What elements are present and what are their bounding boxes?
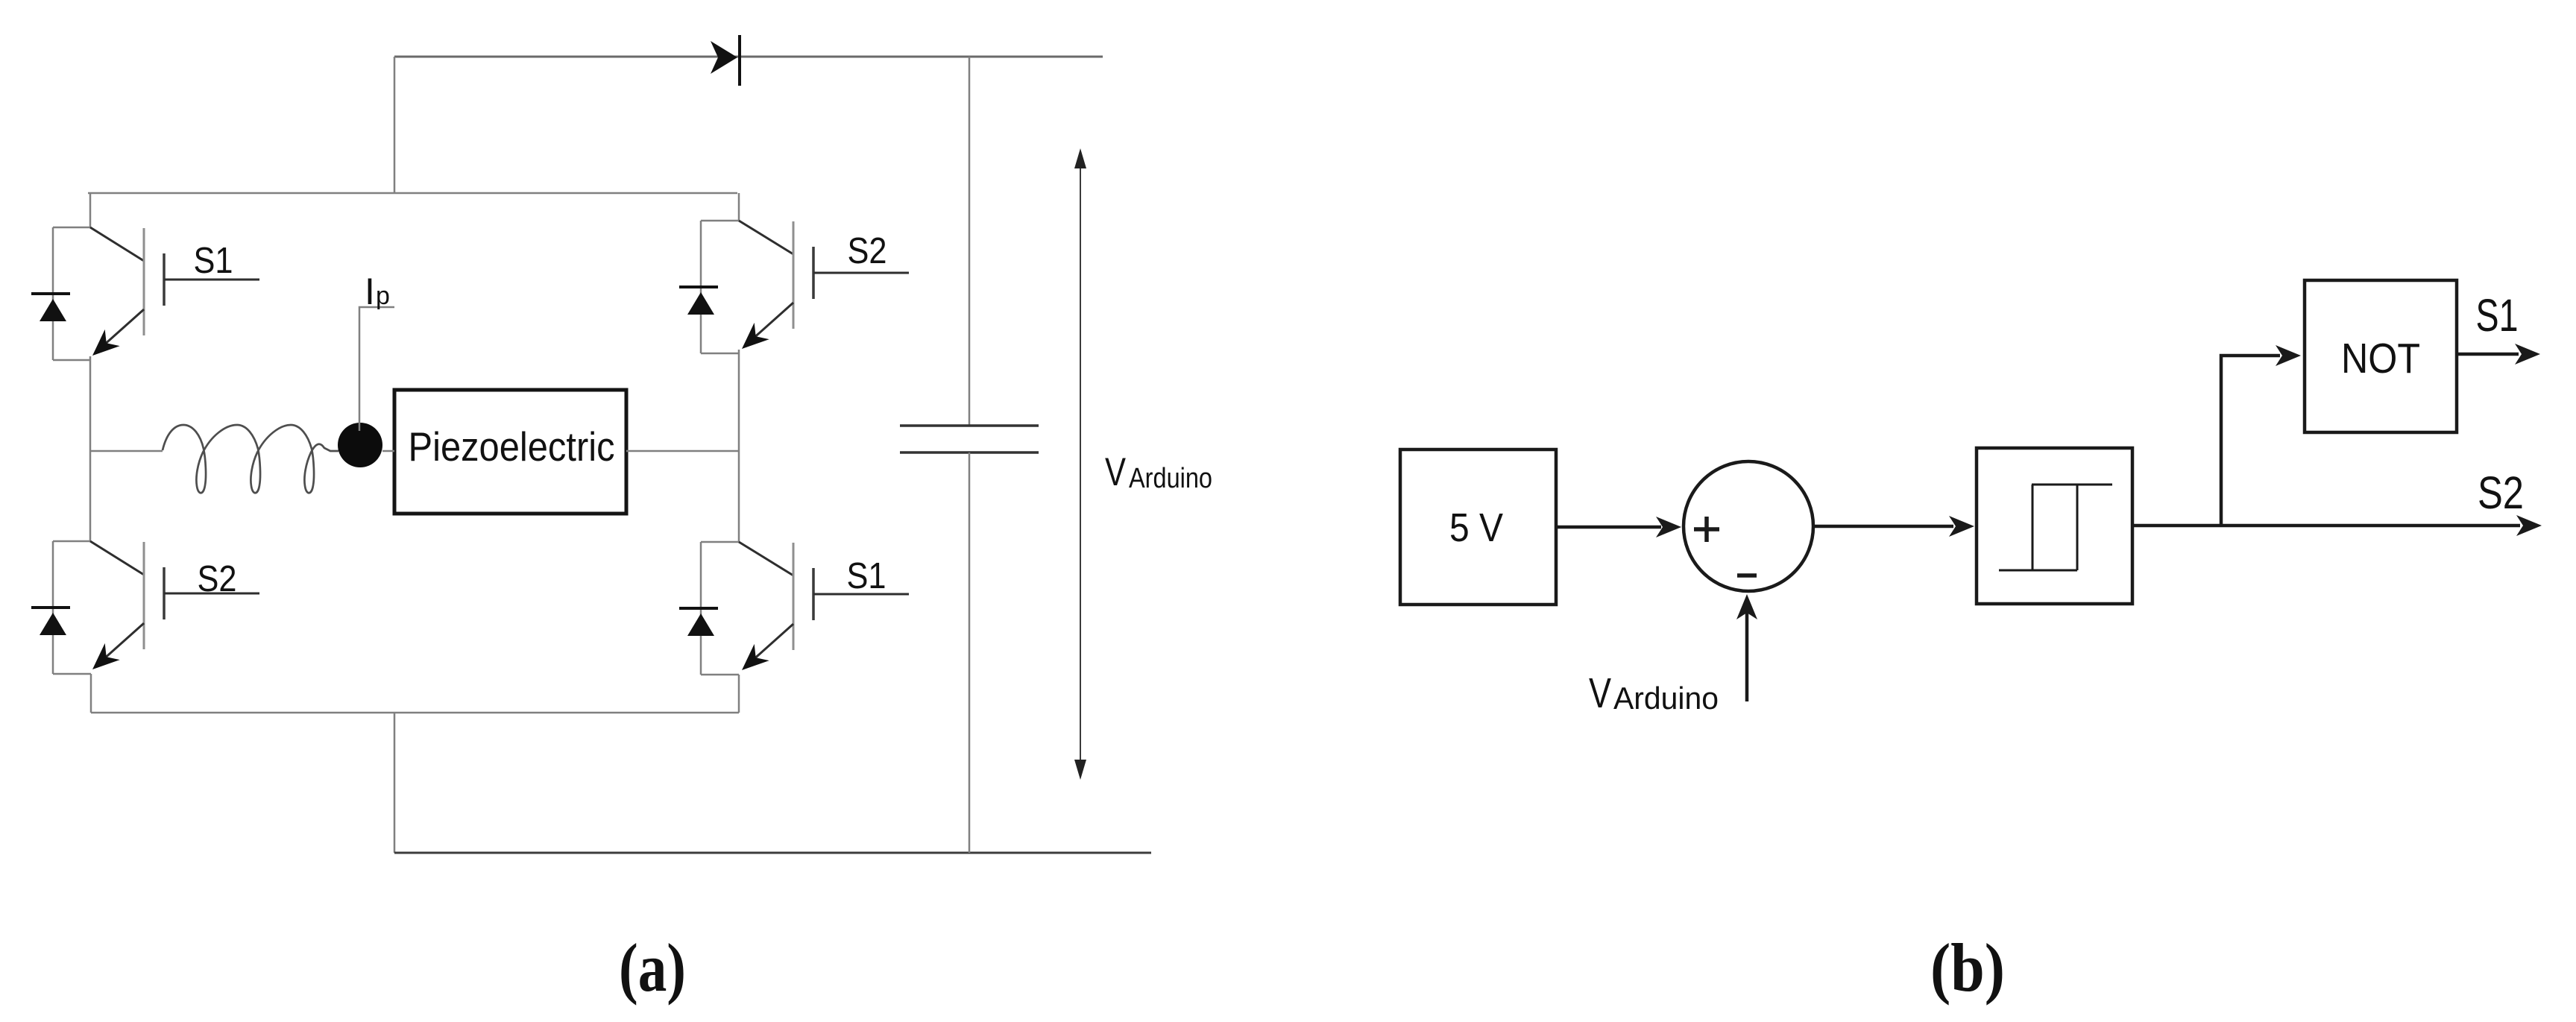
- diode D1 antiparallel of Q1: [31, 227, 90, 360]
- label Ip: [365, 271, 390, 312]
- svg-text:I: I: [365, 271, 375, 312]
- label plus: [1694, 517, 1719, 542]
- hysteresis symbol: [1999, 485, 2112, 570]
- summing junction U1: [1684, 461, 1813, 591]
- capacitor C1 top lead: [969, 57, 971, 426]
- wire node to piezo: [382, 450, 394, 452]
- wire mid-bottom rail: [91, 712, 739, 714]
- label V_Arduino (b): [1589, 669, 1719, 717]
- svg-text:S1: S1: [2476, 290, 2519, 341]
- arrowhead into NOT: [2276, 345, 2301, 366]
- wire summer to relay: [1814, 525, 1953, 529]
- label minus: [1737, 573, 1757, 578]
- svg-text:S1: S1: [847, 556, 887, 596]
- wire NOT to S1: [2457, 353, 2519, 356]
- svg-text:S2: S2: [2478, 467, 2524, 518]
- svg-text:NOT: NOT: [2341, 335, 2420, 382]
- svg-text:S2: S2: [198, 559, 237, 599]
- svg-text:Arduino: Arduino: [1129, 463, 1212, 494]
- wire drop to bottom rail: [394, 713, 396, 853]
- svg-text:S2: S2: [848, 231, 887, 271]
- wire bottom-right emitter drop: [738, 675, 740, 713]
- transistor Q3 S2 top-right IGBT: [701, 193, 909, 349]
- wire bottom-left emitter drop: [90, 674, 92, 713]
- arrowhead V_Arduino into summer: [1736, 594, 1757, 619]
- transistor Q4 S1 bottom-right IGBT: [701, 542, 909, 670]
- diode D2 antiparallel of Q2: [31, 541, 91, 674]
- svg-text:p: p: [376, 282, 390, 310]
- wire coil feed: [90, 450, 163, 452]
- block NOT gate box: [2305, 280, 2457, 432]
- svg-text:V: V: [1105, 450, 1127, 494]
- wire V_Arduino input: [1745, 605, 1749, 701]
- svg-text:Arduino: Arduino: [1613, 681, 1719, 716]
- V_Arduino measurement arrow: [1074, 148, 1086, 780]
- wire upper rail: [88, 192, 737, 195]
- wire relay output to S2: [2132, 524, 2520, 528]
- block relay hysteresis box: [1977, 448, 2132, 604]
- diode D3 antiparallel of Q3: [679, 221, 739, 353]
- transistor Q1 S1 top-left IGBT: [53, 193, 259, 356]
- arrowhead S1 output: [2515, 344, 2540, 365]
- diode D-top on top rail: [711, 35, 740, 86]
- svg-text:S1: S1: [194, 241, 233, 281]
- arrowhead into summer: [1656, 517, 1681, 537]
- svg-text:(b): (b): [1930, 930, 2005, 1006]
- block 5V source box: [1400, 450, 1556, 605]
- wire branch up to NOT: [2221, 356, 2280, 526]
- inductor L1 coil: [163, 425, 338, 493]
- label V_Arduino (a): [1105, 450, 1212, 494]
- capacitor C1 bottom lead: [969, 452, 971, 853]
- diode D4 antiparallel of Q4: [679, 542, 739, 675]
- wire vertical from top rail to upper rail: [394, 57, 396, 193]
- wire Ip lead: [359, 307, 394, 431]
- svg-text:Piezoelectric: Piezoelectric: [409, 423, 615, 470]
- arrowhead S2 output: [2516, 515, 2542, 536]
- arrowhead into relay: [1949, 516, 1974, 537]
- wire bottom rail: [394, 852, 1151, 854]
- svg-text:(a): (a): [619, 930, 686, 1006]
- node N1 junction dot: [338, 423, 382, 467]
- transistor Q2 S2 bottom-left IGBT: [53, 541, 259, 669]
- capacitor C1 plates: [900, 426, 1039, 452]
- piezoelectric element box: [394, 390, 626, 514]
- wire piezo to right rail: [626, 450, 739, 452]
- wire top rail: [394, 56, 1103, 58]
- wire left rail: [89, 356, 92, 541]
- wire right rail: [738, 350, 740, 542]
- wire 5V to summer: [1556, 526, 1661, 529]
- svg-text:V: V: [1589, 669, 1611, 717]
- svg-text:5 V: 5 V: [1449, 505, 1503, 550]
